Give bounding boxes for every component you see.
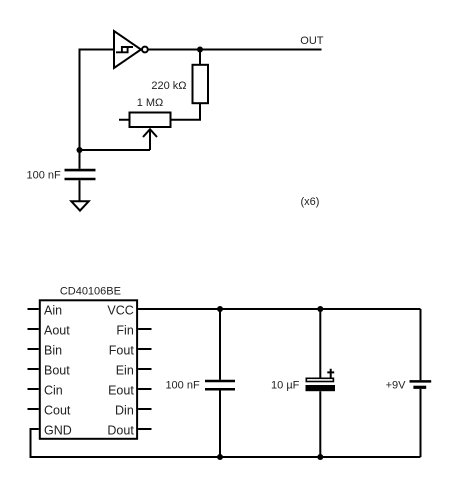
- wire wiper to node A2: [149, 129, 151, 150]
- svg-text:Ain: Ain: [44, 304, 62, 318]
- pin Fin stub: [138, 328, 151, 330]
- potentiometer R2 wiper arrow: [143, 129, 157, 137]
- svg-text:Eout: Eout: [108, 384, 134, 398]
- svg-text:OUT: OUT: [300, 35, 324, 47]
- wire capacitor C3 to GND rail: [319, 391, 321, 457]
- wire capacitor C2 to GND rail: [219, 391, 221, 458]
- svg-text:10 µF: 10 µF: [271, 380, 300, 392]
- potentiometer R2 left stub: [119, 119, 130, 121]
- wire GND net: GND pin down and bottom rail: [31, 429, 421, 457]
- svg-text:Fin: Fin: [116, 324, 133, 338]
- svg-text:Din: Din: [115, 404, 134, 418]
- pin 3 Aout stub: [28, 328, 39, 330]
- node VCC-C3 junction dot: [317, 306, 323, 312]
- wire battery BT1 to GND rail: [420, 389, 422, 457]
- wire input net: inverter input to left corner down to node A: [80, 50, 115, 151]
- svg-text:+9V: +9V: [386, 380, 407, 392]
- pin Din stub: [138, 408, 151, 410]
- wire node A to resistor R1 top: [199, 50, 201, 65]
- node A junction dot at output: [197, 47, 203, 53]
- hysteresis symbol inside U1: [116, 47, 133, 52]
- svg-text:CD40106BE: CD40106BE: [60, 285, 121, 297]
- inverter output bubble: [142, 47, 148, 53]
- wire VCC net top rail: [138, 308, 420, 310]
- wire VCC rail right side down to battery BT1: [420, 309, 422, 380]
- pin 9 Cin stub: [28, 388, 39, 390]
- pin 6 Bout stub: [28, 368, 39, 370]
- svg-text:220 kΩ: 220 kΩ: [151, 80, 186, 92]
- svg-text:100 nF: 100 nF: [165, 380, 200, 392]
- node A2 junction dot: [77, 147, 83, 153]
- battery BT1 positive plate: [410, 380, 432, 383]
- wire node A2 to capacitor C1: [79, 150, 81, 169]
- wire capacitor C1 to ground: [79, 180, 81, 201]
- wire resistor R1 bottom to potentiometer R2 right lead: [171, 103, 201, 120]
- node VCC-C2 junction dot: [217, 306, 223, 312]
- svg-text:100 nF: 100 nF: [27, 170, 62, 182]
- svg-text:Ein: Ein: [116, 364, 134, 378]
- svg-text:VCC: VCC: [107, 304, 133, 318]
- pin Ein stub: [138, 368, 151, 370]
- wire VCC rail to capacitor C3: [319, 309, 321, 378]
- ground symbol: [71, 201, 88, 210]
- capacitor C3 plus sign: [327, 369, 334, 378]
- svg-text:Dout: Dout: [107, 424, 134, 438]
- pin 7 GND stub: [30, 428, 39, 430]
- node GND-C3 junction dot: [317, 454, 323, 460]
- wire output net to OUT: [148, 49, 322, 51]
- pin Fout stub: [138, 348, 151, 350]
- capacitor C2 100 nF plates: [205, 381, 235, 389]
- resistor R1 220 kOhm body: [193, 65, 209, 103]
- node GND-C2 junction dot: [217, 454, 223, 460]
- battery BT1 negative plate: [413, 386, 426, 389]
- svg-text:Fout: Fout: [109, 344, 135, 358]
- op-amp U1 schmitt trigger inverter triangle: [114, 31, 141, 68]
- svg-text:GND: GND: [44, 424, 72, 438]
- wire node A2 horizontal to wiper: [80, 149, 151, 151]
- svg-text:(x6): (x6): [301, 196, 320, 208]
- capacitor C3 10 uF positive plate: [306, 378, 333, 381]
- pin Dout stub: [138, 428, 151, 430]
- IC U2 CD40106BE body: [40, 300, 137, 439]
- wire VCC rail to capacitor C2: [219, 309, 221, 380]
- svg-text:Cout: Cout: [44, 404, 71, 418]
- capacitor C1 100 nF plates: [65, 170, 96, 179]
- pin Eout stub: [138, 388, 151, 390]
- svg-text:Bout: Bout: [44, 364, 70, 378]
- svg-text:Cin: Cin: [44, 384, 63, 398]
- svg-text:1 MΩ: 1 MΩ: [137, 97, 164, 109]
- capacitor C3 10 uF negative plate: [306, 385, 336, 391]
- svg-text:Bin: Bin: [44, 344, 62, 358]
- pin 1 Ain stub: [28, 308, 39, 310]
- potentiometer R2 1 MOhm body: [130, 113, 171, 128]
- pin 8 Cout stub: [28, 408, 39, 410]
- pin 5 Bin stub: [28, 348, 39, 350]
- svg-text:Aout: Aout: [44, 324, 70, 338]
